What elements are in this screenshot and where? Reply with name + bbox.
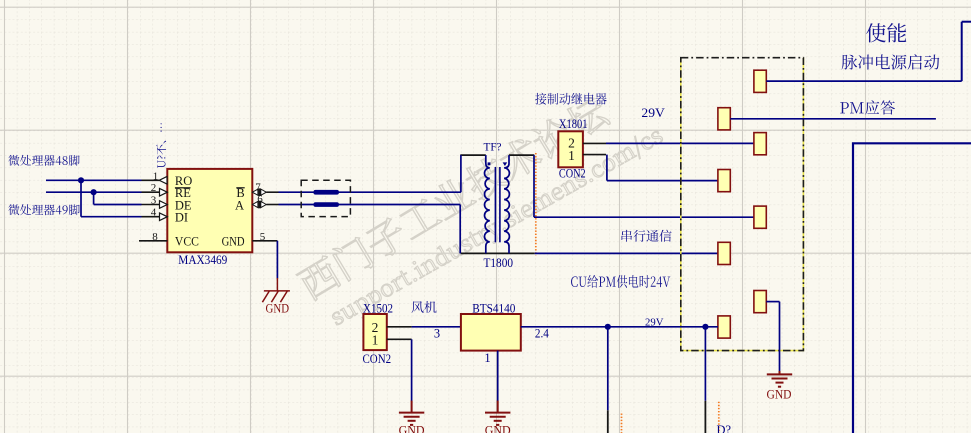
svg-text:VCC: VCC <box>175 235 199 249</box>
pin box B6 <box>718 242 730 264</box>
svg-text:GND: GND <box>767 388 792 402</box>
ground GND bottom right <box>779 371 781 374</box>
svg-text:29V: 29V <box>645 317 664 329</box>
wire X1801.2 to relay box <box>606 142 754 144</box>
pin 3 DE stub <box>142 204 160 206</box>
wire down from junction 2 <box>704 327 706 401</box>
ground GND under X1502 <box>399 412 424 414</box>
svg-text:A: A <box>235 198 244 212</box>
pin 4 DI stub <box>142 216 160 218</box>
pin 2 RE stub <box>142 191 160 193</box>
wire vertical RE to DE <box>93 192 95 204</box>
label serial communication <box>622 230 672 242</box>
wire DE branch <box>94 204 142 206</box>
transceiver IC U? MAX3469 body <box>167 169 252 252</box>
svg-text:1: 1 <box>568 148 575 163</box>
transformer TF? top rail left (black) <box>460 154 486 156</box>
svg-text:5: 5 <box>260 231 266 243</box>
boundary box yellow underlay <box>681 58 804 351</box>
pin 6 bidirectional arrow <box>252 201 258 207</box>
ground GND under BTS4140 <box>485 412 510 414</box>
ground GND (slash style) <box>262 278 290 302</box>
designator note U? (vertical) <box>156 123 166 168</box>
wire B7 to ground <box>766 301 779 303</box>
pin box B2 (PM answer) <box>718 108 730 130</box>
junction node <box>605 324 611 330</box>
pin 1 RO stub <box>142 179 160 181</box>
watermark line 2 (url) <box>328 125 667 331</box>
svg-text:CON2: CON2 <box>363 352 392 366</box>
label enable <box>866 23 906 42</box>
svg-text:DI: DI <box>175 211 188 225</box>
svg-text:3: 3 <box>434 327 440 341</box>
pin box B8 (29V) <box>718 316 730 338</box>
X1801 pin 2 stub <box>583 142 606 144</box>
transformer secondary winding <box>504 155 509 253</box>
connector X1801 body <box>558 131 583 167</box>
junction node on RO wire <box>78 177 84 183</box>
orange highlight line at transformer <box>535 153 537 256</box>
svg-text:X1502: X1502 <box>363 301 393 315</box>
svg-text:TF?: TF? <box>484 140 502 154</box>
pin 7 bidirectional arrow <box>252 189 258 195</box>
pin 2 arrow <box>160 188 168 196</box>
svg-text:2.4: 2.4 <box>535 326 550 340</box>
wire secondary top vertical <box>533 155 535 217</box>
wire transformer bottom to box <box>535 252 718 254</box>
orange highlight line bottom 1 <box>621 414 623 433</box>
wire serial communication <box>534 216 754 218</box>
wire X1502.2 to BTS4140 <box>412 326 461 328</box>
svg-text:6: 6 <box>257 194 263 206</box>
wire enable net <box>766 80 961 82</box>
transformer top rail right (black) <box>509 154 534 156</box>
polarity dot primary <box>488 162 491 165</box>
svg-text:1: 1 <box>484 351 490 365</box>
boundary box dash-dot border <box>681 58 804 351</box>
svg-text:CON2: CON2 <box>559 167 586 181</box>
wire X1502.1 down to ground <box>411 339 413 401</box>
connector X1502 body <box>363 314 386 350</box>
junction node on RE wire <box>91 189 97 195</box>
pin box B1 (enable) <box>754 70 766 92</box>
label CU powers PM 24V <box>571 275 670 288</box>
choke bar lower <box>314 202 339 207</box>
X1502 pin 1 stub <box>387 338 412 340</box>
pin box B7 (to GND) <box>754 291 766 313</box>
wire A net <box>279 204 461 206</box>
svg-text:MAX3469: MAX3469 <box>178 252 227 267</box>
pin 4 arrow <box>160 213 168 221</box>
X1502 pin 2 stub <box>387 326 412 328</box>
wire BTS4140 pin1 to ground <box>497 351 499 401</box>
transformer core lines <box>494 167 496 242</box>
wire DI branch <box>81 216 142 218</box>
svg-text:8: 8 <box>152 231 158 243</box>
watermark line 1 (Chinese) <box>295 93 612 303</box>
switch BTS4140 body <box>461 314 521 351</box>
svg-text:T1800: T1800 <box>484 256 514 270</box>
svg-text:2: 2 <box>151 182 157 194</box>
polarity arrow secondary <box>503 162 508 166</box>
svg-text:X1801: X1801 <box>559 117 588 131</box>
svg-text:1: 1 <box>153 170 159 182</box>
common-mode choke dashed box <box>301 180 350 216</box>
pin 1 arrow <box>159 177 167 185</box>
svg-text:1: 1 <box>372 333 379 348</box>
wire PM answer net <box>730 118 936 120</box>
junction node <box>702 324 708 330</box>
pin 6 stub <box>266 204 278 206</box>
label microprocessor pin 49 <box>8 204 79 215</box>
pin box B5 (serial) <box>754 206 766 228</box>
wire 29V net <box>521 326 718 328</box>
wire B net <box>279 191 461 193</box>
orange highlight line bottom 2 <box>718 402 720 433</box>
svg-text:4: 4 <box>151 207 157 219</box>
wire RE net <box>46 191 142 193</box>
wire down from junction 1 <box>607 327 609 411</box>
svg-text:GND: GND <box>485 424 511 433</box>
svg-text:3: 3 <box>151 195 157 207</box>
wire left vertical upper (B to primary top) <box>460 155 462 192</box>
label fan <box>412 301 437 313</box>
wire left vertical lower (A to primary bottom) <box>459 205 461 254</box>
svg-text:D?: D? <box>717 422 732 433</box>
choke bar upper <box>314 190 339 195</box>
wire pin5 to ground <box>276 241 278 279</box>
svg-text:GND: GND <box>399 424 425 433</box>
pin 3 arrow <box>160 201 168 209</box>
wire RO net from microprocessor pin 48 <box>46 179 142 181</box>
transformer bottom rail (black) <box>461 252 535 254</box>
X1801 pin 1 stub <box>583 154 606 156</box>
label pulse power start <box>842 54 940 69</box>
pin box B4 <box>718 170 730 192</box>
label brake relay <box>535 93 607 105</box>
pin 5 GND stub <box>252 240 277 242</box>
transformer primary winding <box>484 155 489 253</box>
svg-text:7: 7 <box>255 181 261 193</box>
svg-text:BTS4140: BTS4140 <box>472 301 515 315</box>
pin 8 VCC stub <box>139 240 167 242</box>
wire X1801.1 bend <box>606 155 608 181</box>
svg-text:GND: GND <box>266 301 290 315</box>
label PM answer <box>840 100 895 114</box>
pin 7 stub <box>266 191 278 193</box>
svg-text:GND: GND <box>222 235 245 249</box>
sheet block lower right <box>853 143 971 433</box>
wire vertical RO to DI <box>80 180 82 216</box>
label microprocessor pin 48 <box>8 155 79 166</box>
pin box B3 <box>754 133 766 155</box>
svg-text:29V: 29V <box>641 106 665 120</box>
